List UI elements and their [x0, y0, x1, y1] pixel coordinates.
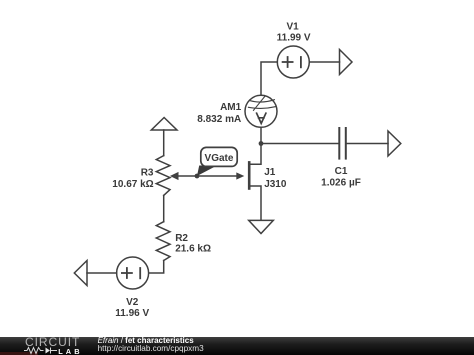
- wire AM1 bottom to drain node: [260, 127, 262, 143]
- wire V1 left terminal to AM1 top: [261, 62, 277, 95]
- voltage source V1: [277, 46, 309, 78]
- wire V1 right terminal to output port: [309, 61, 339, 63]
- JFET source lead to ground: [250, 186, 261, 220]
- svg-text:10.67 kΩ: 10.67 kΩ: [112, 179, 153, 190]
- transistor J1 (N-JFET) channel bar: [248, 162, 251, 188]
- svg-text:8.832 mA: 8.832 mA: [197, 114, 241, 125]
- label V2 value 11.96 V: [115, 308, 149, 319]
- node junction dot (gate node / VGate): [195, 174, 200, 179]
- wire C1 right plate to output port: [347, 143, 388, 145]
- label C1 value 1.026 uF: [321, 177, 361, 188]
- CircuitLab logo LAB: [58, 348, 83, 355]
- label J1 value J310: [264, 179, 287, 190]
- label R3 name: [141, 168, 154, 179]
- ground (down triangle): [249, 220, 274, 233]
- port (output flag, right-pointing) at V1: [340, 50, 353, 75]
- wire R3 bottom to R2 top: [163, 195, 165, 221]
- svg-text:V1: V1: [286, 21, 299, 32]
- svg-text:11.96 V: 11.96 V: [115, 308, 149, 319]
- footer title: Efrain / fet characteristics: [98, 337, 194, 345]
- wire R2 bottom to V2 right terminal: [149, 261, 164, 274]
- footer bar: [0, 337, 474, 355]
- svg-text:11.99 V: 11.99 V: [277, 32, 311, 43]
- label R3 value 10.67 kOhm: [112, 179, 153, 190]
- svg-text:VGate: VGate: [205, 153, 234, 164]
- potentiometer R3 zigzag body: [156, 156, 170, 196]
- port (left-pointing flag) at V2: [74, 261, 87, 286]
- JFET gate wire with arrow: [197, 172, 244, 179]
- label AM1 name: [220, 102, 242, 113]
- svg-text:1.026 µF: 1.026 µF: [321, 177, 361, 188]
- port (up-pointing flag) above R3: [151, 118, 177, 131]
- label J1 name: [264, 167, 276, 178]
- svg-text:R2: R2: [175, 233, 188, 244]
- svg-text:AM1: AM1: [220, 102, 242, 113]
- label V2 name: [126, 297, 139, 308]
- svg-text:J310: J310: [264, 179, 287, 190]
- CircuitLab logo zigzag + diode: [24, 346, 60, 355]
- wire drain node to capacitor C1: [261, 143, 339, 145]
- node junction dot (drain node): [259, 141, 264, 146]
- svg-text:21.6 kΩ: 21.6 kΩ: [175, 243, 211, 254]
- label AM1 value 8.832 mA: [197, 114, 241, 125]
- CircuitLab logo CIRCUIT: [25, 336, 80, 348]
- wire drain node down to JFET drain: [250, 144, 261, 165]
- VGate callout flag: [197, 147, 237, 176]
- label V1 value 11.99 V: [277, 32, 311, 43]
- svg-text:C1: C1: [335, 166, 348, 177]
- svg-text:V2: V2: [126, 297, 139, 308]
- wire V2 left terminal to left port: [87, 272, 117, 274]
- footer url: [98, 345, 204, 353]
- label C1 name: [335, 166, 348, 177]
- footer accent strip: [0, 352, 38, 355]
- ammeter AM1: [245, 95, 277, 127]
- capacitor C1: [339, 128, 346, 159]
- svg-text:R3: R3: [141, 168, 154, 179]
- resistor R2 zigzag body: [156, 222, 170, 261]
- label R2 name: [175, 233, 188, 244]
- label R2 value 21.6 kOhm: [175, 243, 211, 254]
- potentiometer R3 wiper arrow: [170, 172, 197, 180]
- label V1 name: [286, 21, 299, 32]
- svg-text:J1: J1: [264, 167, 276, 178]
- wire port to R3 top: [163, 130, 165, 156]
- voltage source V2: [117, 257, 149, 289]
- port (output flag, right-pointing) at C1: [388, 131, 401, 156]
